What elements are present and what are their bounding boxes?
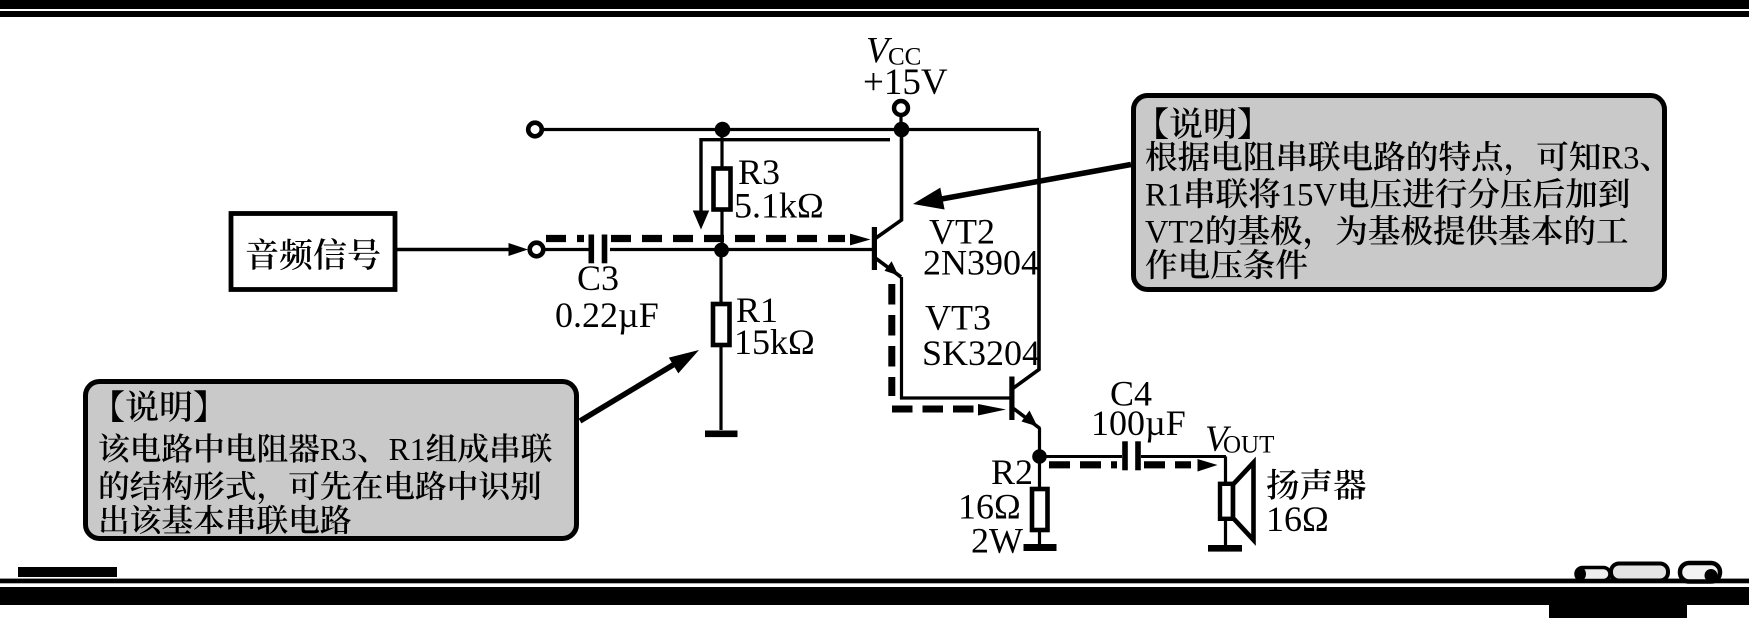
wire: top supply rail from input terminal to VT3 collector drop [543, 128, 1039, 131]
label VCC [866, 31, 921, 72]
node: junction dot VCC feed [894, 122, 910, 138]
svg-text:VT2: VT2 [1145, 215, 1205, 251]
wire: C3 to VT2 base [610, 248, 872, 251]
node: junction dot top rail / R3 top [715, 122, 731, 138]
capacitor C3 plates [589, 235, 608, 264]
node: junction dot VT3 emitter / R2 / C4 [1032, 449, 1047, 464]
wire: R2 bottom lead [1038, 530, 1041, 545]
left box text line 1 [112, 390, 124, 422]
page bottom thick bar [0, 587, 1749, 605]
svg-text:5.1kΩ: 5.1kΩ [734, 186, 824, 226]
speaker cone [1233, 463, 1254, 541]
transistor VT3 base bar [1009, 377, 1014, 421]
svg-text:2W: 2W [971, 521, 1023, 561]
wire: R1 top lead [719, 250, 722, 304]
svg-text:R3: R3 [1601, 141, 1639, 177]
annotation arrow from left box to R1/R3 branch [580, 350, 699, 421]
input source box 音频信号 [231, 214, 395, 290]
decorative doodle clip 3 [1680, 563, 1720, 582]
wire: R3 bottom lead to base node [720, 210, 723, 251]
svg-text:15kΩ: 15kΩ [734, 322, 815, 362]
speaker driver rectangle [1220, 484, 1233, 519]
signal path dashed: into VT3 base with arrow [892, 404, 1006, 416]
transistor VT3 collector lead [1014, 131, 1040, 388]
ground: speaker ground bar [1208, 545, 1242, 552]
decorative doodle capsule 1 [1576, 568, 1610, 581]
right box text line 1 [1156, 107, 1168, 139]
annotation box (left) [86, 382, 577, 539]
label speaker 扬声器 [1267, 469, 1298, 500]
svg-text:2N3904: 2N3904 [923, 243, 1039, 283]
wire: VT3 emitter down to output node [1038, 428, 1041, 457]
label VOUT [1205, 419, 1274, 460]
svg-text:100µF: 100µF [1091, 403, 1186, 443]
svg-text:R1: R1 [389, 432, 426, 467]
annotation box (right) [1134, 96, 1665, 290]
wire: input terminal to C3 [543, 248, 589, 251]
wire: VT2 emitter down and across to VT3 base [902, 277, 1011, 398]
arrow: input box to input terminal [395, 243, 528, 256]
wire: R3 top lead [720, 130, 723, 169]
resistor R3 body [714, 169, 731, 210]
page top border bar [0, 0, 1749, 17]
capacitor C4 plates [1122, 441, 1141, 470]
resistor R2 body [1032, 489, 1048, 530]
ground: R1 ground bar [705, 431, 738, 438]
decorative doodle capsule 2 [1611, 562, 1668, 581]
annotation arrow: L-shaped pointer from supply to divider tap [693, 140, 890, 230]
wire: output node to C4 [1040, 455, 1123, 458]
signal path dashed: output through C4 with arrow [1049, 459, 1218, 472]
signal path dashed: input to VT2 base [546, 234, 871, 246]
wire: R2 top lead [1038, 457, 1041, 489]
left box text line 3 [101, 471, 129, 500]
label 音频信号 (audio signal) [247, 238, 278, 270]
page bottom right black block [1549, 587, 1687, 618]
signal path dashed: VT2 emitter vertical [888, 284, 895, 396]
svg-text:16Ω: 16Ω [1266, 499, 1329, 539]
ground: R2 ground bar [1024, 544, 1057, 551]
svg-text:C3: C3 [577, 258, 619, 298]
left box text line 4 [101, 505, 128, 534]
svg-text:R1: R1 [1145, 178, 1183, 214]
svg-text:0.22µF: 0.22µF [555, 295, 659, 335]
svg-text:SK3204: SK3204 [922, 333, 1040, 373]
wire: VCC terminal stub [899, 115, 902, 123]
svg-text:+15V: +15V [863, 62, 948, 103]
transistor VT2 collector lead [876, 129, 902, 238]
svg-text:15V: 15V [1281, 178, 1338, 214]
wire: C4 to VOUT line [1141, 455, 1226, 458]
svg-text:VT3: VT3 [925, 298, 991, 338]
transistor VT2 base bar [872, 227, 877, 270]
svg-text:R3: R3 [320, 432, 357, 467]
wire: R1 bottom lead [719, 345, 722, 430]
power terminal VCC: open circle [894, 101, 908, 115]
transistor VT2 emitter lead with arrow [876, 259, 901, 278]
page bottom rule line [0, 579, 1749, 584]
terminal: input open circle [530, 243, 544, 257]
wire: VOUT line down to speaker and ground [1224, 457, 1227, 546]
terminal: open circle on top rail (left) [528, 123, 542, 137]
page bottom tick mark [18, 567, 117, 577]
left box text line 2 [99, 433, 129, 462]
right box text line 2 [1146, 141, 1177, 171]
svg-text:OUT: OUT [1223, 432, 1274, 459]
node: junction dot base divider tap [714, 243, 729, 258]
transistor VT3 emitter lead with arrow [1014, 409, 1041, 429]
right box text line 5 [1146, 249, 1177, 279]
resistor R1 body [713, 304, 730, 345]
annotation arrow from right box to VT2 collector [913, 165, 1131, 210]
